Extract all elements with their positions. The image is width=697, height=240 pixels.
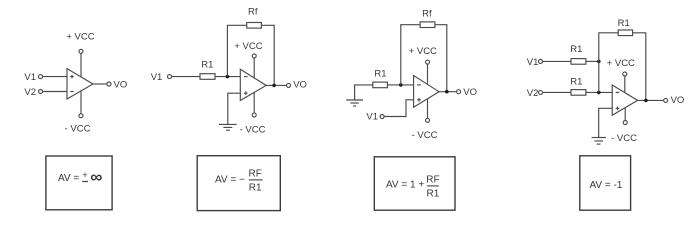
wire +VCC to op-amp: [427, 64, 429, 84]
svg-text:AV = -1: AV = -1: [589, 180, 622, 191]
wire summing vertical: [599, 33, 618, 93]
svg-text:R1: R1: [570, 76, 582, 87]
wire V2 to op-amp: [43, 91, 67, 93]
svg-text:V1: V1: [527, 57, 539, 68]
op-amp A1: [67, 69, 93, 99]
wire non-inverting input to ground: [599, 108, 613, 137]
svg-text:V1: V1: [151, 72, 163, 83]
svg-text:+ VCC: + VCC: [234, 41, 262, 52]
wire R1 to op-amp inverting input: [387, 84, 413, 86]
wire Rf to output node: [261, 25, 274, 85]
terminal V1: [539, 59, 543, 63]
svg-text:V2: V2: [527, 88, 539, 99]
svg-text:- VCC: - VCC: [412, 130, 438, 141]
junction node V1 sum: [597, 60, 601, 64]
wire op-amp to -VCC: [427, 99, 429, 119]
resistor R1 input a: [571, 59, 586, 65]
wire output VO: [638, 99, 664, 101]
wire +VCC to op-amp: [80, 53, 82, 76]
svg-text:AV =: AV =: [58, 173, 79, 184]
wire V1 to non-inverting input: [384, 100, 413, 117]
wire output VO: [93, 83, 107, 85]
wire non-inverting input to ground: [228, 93, 241, 124]
svg-text:+ VCC: + VCC: [607, 58, 635, 69]
resistor Rf: [247, 23, 262, 29]
terminal VO: [664, 98, 668, 102]
junction node output: [272, 84, 276, 88]
wire op-amp to -VCC: [253, 92, 255, 112]
terminal -VCC: [426, 118, 430, 122]
gain box AV = -RF/R1: [197, 156, 280, 211]
svg-text:VO: VO: [671, 95, 685, 106]
wire R1b to op-amp inverting input: [586, 91, 612, 93]
junction node inverting input: [597, 91, 601, 95]
op-amp A2: [240, 69, 266, 100]
junction node at inverting input: [226, 75, 230, 79]
terminal -VCC: [623, 121, 627, 125]
junction node at inverting input: [399, 83, 403, 87]
wire feedback left vertical: [401, 25, 420, 85]
terminal +VCC: [252, 54, 256, 58]
svg-text:R1: R1: [618, 18, 630, 29]
wire ground to R1: [355, 85, 373, 100]
wire R1a to summing node: [586, 60, 599, 62]
terminal VO: [287, 83, 291, 87]
svg-text:RF: RF: [426, 175, 439, 186]
wire output VO: [266, 84, 286, 86]
resistor R1: [373, 82, 388, 88]
terminal +VCC: [623, 72, 627, 76]
terminal VO: [457, 90, 461, 94]
terminal VO: [107, 82, 111, 86]
svg-text:- VCC: - VCC: [240, 125, 266, 136]
svg-text:AV = −: AV = −: [215, 175, 245, 186]
terminal -VCC: [252, 113, 256, 117]
svg-text:+ VCC: + VCC: [409, 46, 437, 57]
ground: [219, 124, 237, 130]
junction node output: [644, 99, 648, 103]
terminal V2: [539, 90, 543, 94]
terminal V1: [380, 115, 384, 119]
gain box AV = -1: [580, 156, 631, 210]
svg-text:VO: VO: [463, 87, 477, 98]
wire op-amp to -VCC: [624, 108, 626, 121]
svg-text:- VCC: - VCC: [611, 133, 637, 144]
svg-text:+: +: [82, 170, 87, 180]
svg-text:R1: R1: [374, 69, 386, 80]
wire feedback left vertical: [227, 25, 246, 76]
svg-text:∞: ∞: [90, 168, 102, 187]
wire +VCC to op-amp: [253, 58, 255, 78]
wire op-amp to -VCC: [80, 91, 82, 113]
junction node output: [445, 90, 449, 94]
wire R1 feedback to output node: [633, 33, 646, 101]
wire +VCC to op-amp: [624, 76, 626, 93]
resistor R1 input b: [571, 90, 586, 96]
svg-text:AV = 1 +: AV = 1 +: [386, 180, 424, 191]
resistor Rf: [420, 22, 435, 28]
op-amp A3: [414, 76, 439, 108]
terminal V1: [39, 75, 43, 79]
svg-text:+ VCC: + VCC: [66, 32, 94, 43]
terminal +VCC: [426, 60, 430, 64]
wire output VO: [439, 91, 457, 93]
svg-text:VO: VO: [293, 80, 307, 91]
wire Rf to output node: [435, 25, 447, 92]
svg-text:V1: V1: [366, 112, 378, 123]
svg-text:Rf: Rf: [248, 7, 258, 18]
svg-text:- VCC: - VCC: [65, 123, 91, 134]
svg-text:R1: R1: [427, 188, 440, 199]
svg-text:R1: R1: [570, 44, 582, 55]
gain box AV = 1 + RF/R1: [374, 157, 455, 210]
terminal +VCC: [79, 49, 83, 53]
svg-text:VO: VO: [114, 80, 128, 91]
gain box AV = +/- infinity: [46, 156, 112, 210]
svg-text:V2: V2: [24, 87, 36, 98]
svg-text:R1: R1: [201, 60, 213, 71]
wire R1 to op-amp inverting input: [215, 76, 240, 78]
svg-text:RF: RF: [249, 169, 262, 180]
resistor R1: [200, 74, 215, 80]
terminal V1: [168, 75, 172, 79]
op-amp A4: [612, 85, 637, 115]
svg-text:V1: V1: [24, 72, 36, 83]
terminal V2: [39, 90, 43, 94]
resistor R1 feedback: [618, 30, 632, 36]
ground: [346, 100, 363, 106]
wire V1 to R1: [543, 60, 571, 62]
wire V1 to op-amp: [43, 76, 67, 78]
wire V1 to R1: [172, 76, 200, 78]
svg-text:R1: R1: [249, 182, 262, 193]
svg-text:Rf: Rf: [422, 9, 432, 20]
terminal -VCC: [79, 114, 83, 118]
wire V2 to R1: [543, 91, 571, 93]
ground: [592, 138, 606, 145]
